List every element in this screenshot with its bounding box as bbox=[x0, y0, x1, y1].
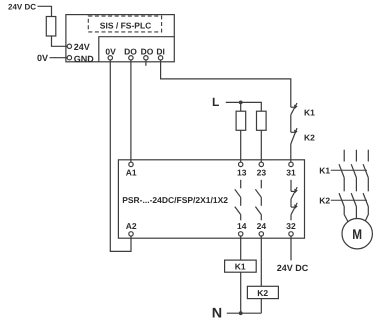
safety contact 13-14 (two NO in series) bbox=[235, 180, 241, 221]
svg-text:K2: K2 bbox=[319, 196, 330, 206]
wire 32 to 24V DC bbox=[290, 236, 292, 260]
fuse F2 bbox=[257, 111, 267, 130]
terminal 31 circle bbox=[289, 162, 293, 166]
contact K2 NC (emergency chain) bbox=[291, 128, 298, 144]
svg-text:A2: A2 bbox=[126, 221, 137, 231]
wire 0V label to GND terminal bbox=[50, 57, 68, 59]
PLC outer box bbox=[66, 15, 174, 62]
coil K1 box bbox=[225, 260, 257, 272]
terminal A2 circle bbox=[129, 232, 133, 236]
PLC inner I/O box bbox=[99, 37, 175, 62]
feedback contact 31-32 (two NC in series) bbox=[291, 180, 298, 221]
contact K1 NC (emergency chain) bbox=[291, 103, 298, 115]
junction node on N bbox=[239, 311, 243, 315]
svg-text:GND: GND bbox=[74, 54, 95, 64]
wire F2 to terminal 23 bbox=[260, 130, 262, 162]
svg-text:K2: K2 bbox=[257, 288, 268, 298]
wire coil K1 to N bbox=[240, 272, 242, 313]
coil K2 box bbox=[247, 286, 278, 298]
svg-text:L: L bbox=[212, 95, 219, 109]
wires K2 to motor bbox=[344, 207, 368, 223]
terminal 24V circle bbox=[67, 44, 71, 48]
fuse F1 bbox=[236, 111, 246, 130]
svg-text:31: 31 bbox=[286, 167, 296, 177]
svg-text:24: 24 bbox=[257, 221, 267, 231]
svg-text:14: 14 bbox=[237, 221, 247, 231]
wires K1 to K2 main bbox=[344, 178, 368, 192]
terminal GND circle bbox=[67, 56, 71, 60]
svg-text:13: 13 bbox=[237, 167, 247, 177]
svg-text:K1: K1 bbox=[319, 166, 330, 176]
motor M bbox=[342, 219, 372, 249]
wire N line bbox=[227, 312, 261, 314]
wire K2 to terminal 31 bbox=[290, 144, 292, 162]
terminal A1 circle bbox=[129, 162, 133, 166]
svg-text:K1: K1 bbox=[304, 108, 315, 118]
terminal 14 circle bbox=[239, 232, 243, 236]
svg-text:M: M bbox=[352, 226, 362, 242]
wire from 24V DC label bbox=[38, 6, 52, 16]
terminal DI circle bbox=[158, 56, 162, 60]
svg-text:SIS / FS-PLC: SIS / FS-PLC bbox=[100, 20, 151, 30]
terminal 32 circle bbox=[289, 232, 293, 236]
terminal DO1 circle bbox=[129, 56, 133, 60]
wire DI to K1 contact bbox=[161, 60, 291, 107]
svg-text:24V DC: 24V DC bbox=[8, 3, 36, 12]
three-phase supply stubs bbox=[344, 150, 368, 162]
svg-text:24V DC: 24V DC bbox=[277, 263, 309, 273]
safety contact 23-24 (two NO in series) bbox=[255, 180, 261, 221]
wire F1 to terminal 13 bbox=[240, 130, 242, 162]
terminal 0V circle bbox=[108, 56, 112, 60]
contactor K1 main contacts (3 NO) bbox=[331, 164, 369, 177]
wire DO1 to A1 bbox=[130, 60, 132, 162]
svg-text:N: N bbox=[212, 305, 222, 321]
svg-text:PSR-...-24DC/FSP/2X1/1X2: PSR-...-24DC/FSP/2X1/1X2 bbox=[122, 195, 228, 205]
wire 0V to A2 (down, right, up) bbox=[110, 60, 131, 251]
wire L to fuse F1 bbox=[240, 102, 242, 111]
wire 14 to coil K1 bbox=[240, 236, 242, 260]
svg-text:A1: A1 bbox=[126, 167, 137, 177]
wire L line bbox=[226, 102, 261, 111]
terminal DO2 circle bbox=[144, 56, 148, 60]
fuse F0 bbox=[46, 17, 56, 37]
wire coil K2 to N bbox=[260, 299, 262, 314]
contactor K2 main contacts (3 NO) bbox=[331, 193, 369, 206]
wire 24 to coil K2 bbox=[260, 236, 262, 286]
wire fuse to 24V terminal bbox=[52, 36, 68, 46]
svg-text:DO: DO bbox=[141, 47, 154, 57]
svg-text:K2: K2 bbox=[304, 133, 315, 143]
svg-text:K1: K1 bbox=[235, 262, 246, 272]
terminal 13 circle bbox=[239, 162, 243, 166]
svg-text:0V: 0V bbox=[37, 53, 48, 63]
svg-text:32: 32 bbox=[286, 221, 296, 231]
junction node on L bbox=[239, 101, 243, 105]
svg-text:24V: 24V bbox=[74, 42, 90, 52]
terminal 23 circle bbox=[259, 162, 263, 166]
stub DO2 unused bbox=[145, 60, 147, 66]
terminal 24 circle bbox=[259, 232, 263, 236]
svg-text:23: 23 bbox=[257, 167, 267, 177]
PSR relay box U1 bbox=[118, 160, 304, 238]
wire K1 to K2 bbox=[290, 115, 292, 133]
dashed box SIS / FS-PLC bbox=[88, 16, 161, 32]
